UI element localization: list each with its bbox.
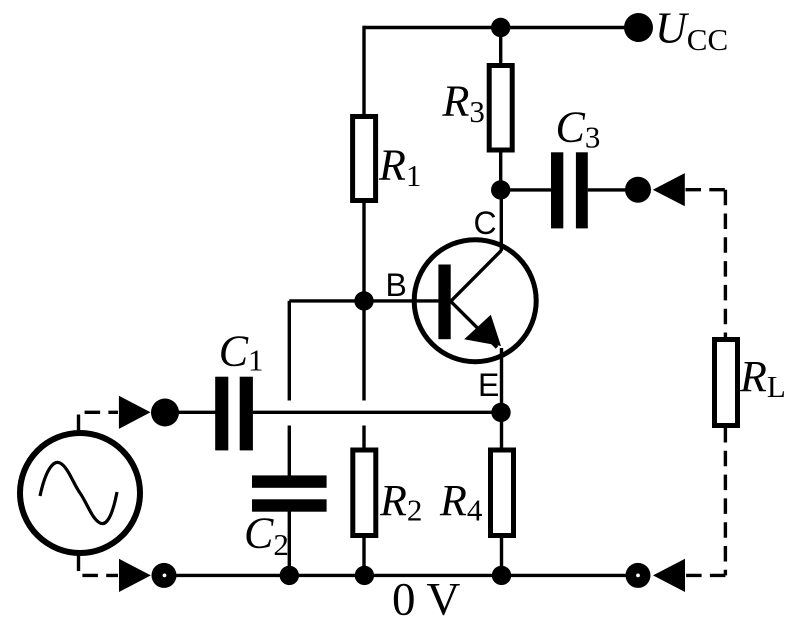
svg-text:C: C [474, 205, 497, 241]
arrow input bottom [119, 559, 151, 592]
terminal dot output top [625, 177, 651, 203]
wire node C down to collector [500, 190, 503, 251]
wire top rail to R3 [499, 28, 502, 67]
source circle [20, 433, 140, 553]
wire dashed output bottom horizontal [686, 574, 726, 577]
wire C3 to output terminal [588, 188, 638, 191]
svg-text:E: E [478, 367, 499, 403]
svg-text:R1: R1 [378, 141, 421, 194]
terminal dot output bottom [626, 563, 651, 588]
wire R4 bottom to ground rail [500, 533, 503, 575]
wire R1 bottom to node B [362, 199, 365, 301]
svg-text:R4: R4 [439, 476, 483, 528]
svg-text:RL: RL [739, 352, 786, 404]
capacitor C1 [215, 377, 253, 451]
resistor RL [715, 340, 738, 426]
svg-text:C2: C2 [244, 509, 289, 563]
node junction dot R4 ground [492, 566, 511, 585]
node junction dot top rail [491, 18, 510, 37]
transistor Q1 circle [414, 240, 536, 362]
arrow output top [653, 173, 685, 206]
resistor R3 [489, 66, 512, 151]
node junction dot R2 ground [355, 566, 374, 585]
wire top rail corner down to R1 [362, 26, 365, 117]
svg-text:R3: R3 [442, 77, 485, 130]
resistor R4 [491, 450, 514, 536]
wire R3 bottom to node C [499, 148, 502, 190]
resistor R1 [353, 117, 376, 201]
node junction dot C2 ground [280, 566, 299, 585]
wire top supply rail [364, 26, 638, 29]
wire dashed RL bottom vertical [724, 427, 727, 575]
svg-text:0 V: 0 V [392, 574, 460, 626]
wire dashed output top horizontal [686, 188, 726, 191]
wire B corner down to hop gap [288, 301, 291, 401]
svg-text:UCC: UCC [655, 4, 728, 58]
wire hop gap to C2 top [288, 426, 291, 478]
wire dashed source bottom to ground input [79, 556, 119, 576]
transistor Q1 base bar [438, 265, 450, 340]
node junction dot B [354, 291, 373, 310]
arrow output bottom [653, 559, 685, 592]
source sine wave [40, 462, 117, 523]
wire C1 to node E [253, 411, 501, 414]
svg-text:R2: R2 [379, 476, 422, 528]
terminal dot UCC [624, 13, 653, 42]
wire base to node B [289, 299, 439, 302]
wire node B down to hop gap [362, 301, 365, 401]
transistor Q1 emitter diagonal [451, 301, 497, 347]
node junction dot C node [491, 180, 510, 199]
svg-text:C1: C1 [219, 327, 264, 378]
wire input to C1 [165, 411, 216, 414]
wire ground rail [164, 574, 638, 577]
capacitor C2 [252, 475, 327, 511]
wire hop gap to R2 top [362, 426, 365, 451]
wire node E to R4 [500, 412, 503, 450]
transistor Q1 collector diagonal [451, 251, 502, 302]
wire R2 bottom to ground rail [362, 533, 365, 575]
arrow input top [119, 396, 151, 429]
capacitor C3 [551, 152, 588, 228]
wire C2 bottom to ground rail [288, 511, 291, 576]
terminal dot input top [151, 399, 179, 427]
svg-text:C3: C3 [556, 103, 601, 155]
wire dashed right vertical to RL top [724, 190, 727, 338]
wire emitter to node E [500, 348, 503, 412]
transistor Q1 emitter arrowhead [464, 315, 501, 346]
wire dashed source top to input [79, 412, 119, 430]
svg-text:B: B [386, 267, 407, 303]
terminal dot input bottom [152, 563, 177, 588]
node junction dot E [491, 403, 510, 422]
resistor R2 [353, 450, 376, 536]
wire node C to C3 [501, 188, 552, 191]
